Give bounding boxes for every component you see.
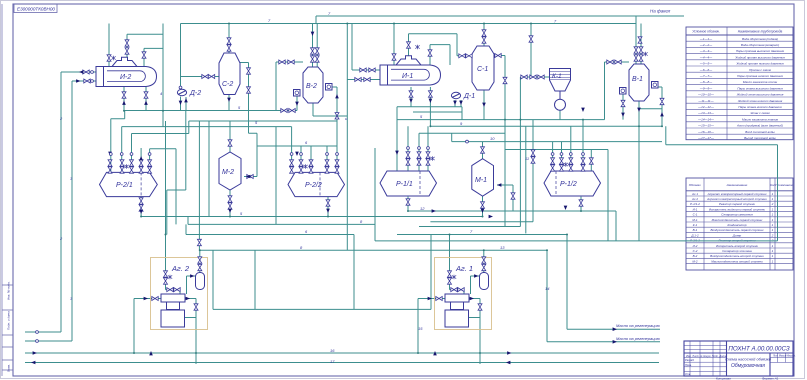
svg-text:И-1: И-1 bbox=[402, 73, 413, 80]
wire K-1 feed vertical bbox=[530, 24, 532, 78]
wire R-1/2 stem 1 bbox=[552, 142, 554, 171]
svg-text:Д.1-2: Д.1-2 bbox=[690, 233, 699, 237]
top-left stamp box bbox=[14, 4, 57, 13]
svg-text:15: 15 bbox=[418, 326, 423, 331]
svg-text:—17—17—: —17—17— bbox=[697, 136, 715, 140]
wire Ag2 feed 1 bbox=[165, 121, 167, 290]
wire bottom long 1 bbox=[25, 352, 659, 354]
svg-text:Д-1: Д-1 bbox=[463, 93, 475, 100]
vessel C-2 (separator) bbox=[219, 53, 240, 95]
wire x451.7 link bbox=[451, 133, 453, 141]
svg-text:—5—5—: —5—5— bbox=[699, 62, 713, 66]
wire band y234.5 bbox=[186, 234, 354, 236]
svg-text:Наименование трубопровода: Наименование трубопровода bbox=[738, 30, 783, 34]
svg-text:Наименование: Наименование bbox=[727, 183, 748, 187]
svg-text:Р-1/2: Р-1/2 bbox=[560, 181, 577, 188]
svg-text:Маслоотделитель второй ступени: Маслоотделитель второй ступени bbox=[711, 259, 763, 263]
wire Ag1 manifold bbox=[450, 290, 465, 294]
wire Ag1 feed 2 bbox=[483, 250, 485, 272]
svg-text:Вода оборотная (подача): Вода оборотная (подача) bbox=[742, 37, 778, 41]
vessel M-1 bbox=[472, 159, 494, 197]
wire v x166.8 bbox=[167, 190, 186, 235]
svg-text:Маслоотделитель первой ступени: Маслоотделитель первой ступени bbox=[712, 218, 763, 222]
svg-text:Р-2/2: Р-2/2 bbox=[305, 182, 322, 189]
wire flare header bbox=[316, 16, 684, 24]
wire x213 drop bbox=[212, 250, 214, 309]
wire bottom-left stub 1 bbox=[25, 331, 61, 333]
wire B-1 top stub 2 bbox=[640, 24, 642, 65]
svg-text:Изм. Лист № докум. Подп. Дат: Изм. Лист № докум. Подп. Дата bbox=[686, 354, 727, 358]
wire Ag2 right outlet bbox=[185, 299, 196, 365]
svg-text:Пары пропана высокого давления: Пары пропана высокого давления bbox=[736, 49, 784, 53]
wire R-1/2 jog bbox=[505, 150, 608, 241]
wire R-1/1 bottom bbox=[407, 197, 409, 211]
wire I-1 top stub A bbox=[393, 24, 395, 66]
svg-text:М-1: М-1 bbox=[692, 218, 697, 222]
vessel C-1 (separator) bbox=[472, 46, 494, 90]
svg-text:Воздухоотделитель второй ступе: Воздухоотделитель второй ступени bbox=[710, 254, 764, 258]
wire long vertical x520.4 bbox=[519, 77, 521, 227]
svg-text:—1—1—: —1—1— bbox=[699, 37, 713, 41]
svg-text:Испаритель второй ступени: Испаритель второй ступени bbox=[716, 244, 758, 248]
wire long left vertical 1 bbox=[60, 72, 62, 332]
svg-text:В-1: В-1 bbox=[693, 228, 698, 232]
wire B-2 bottom-left line bbox=[111, 111, 125, 119]
wire B-1 top line drop bbox=[635, 16, 637, 64]
wire B-1 left loop bbox=[605, 62, 630, 120]
wire I-2 bottom stub B bbox=[145, 87, 147, 111]
wire band y216.5 bbox=[141, 216, 483, 218]
wire B-1 bottom drop bbox=[638, 101, 640, 241]
svg-text:Д-2: Д-2 bbox=[189, 90, 201, 97]
wire I-2 left feed 2 bbox=[72, 80, 96, 82]
wire M-1 right inlet bbox=[497, 185, 513, 211]
wire R-2/1 stem 3 bbox=[131, 134, 133, 173]
condenser K-1 bbox=[550, 69, 571, 111]
svg-text:10: 10 bbox=[490, 136, 495, 141]
tiny line-number labels bbox=[59, 11, 557, 364]
wire R-2/1 stem 1 bbox=[110, 119, 112, 173]
wire v x525.8 bbox=[525, 126, 527, 233]
svg-text:—9—9—: —9—9— bbox=[699, 86, 713, 90]
wire header2 bbox=[413, 107, 462, 120]
wire Ag1 bottom-rect link bbox=[469, 317, 481, 319]
pipeline table (top right) bbox=[686, 27, 793, 140]
wire I-2 left feed 1 bbox=[61, 71, 96, 73]
wire Ag2 left inlet bbox=[134, 299, 161, 354]
wire I-1 left feed 2 bbox=[347, 79, 380, 81]
wire bottom-left stub 2 bbox=[25, 340, 72, 342]
wire band y224.4 bbox=[188, 223, 375, 225]
compressor unit Ag2 bbox=[151, 258, 208, 330]
svg-text:—2—2—: —2—2— bbox=[699, 43, 713, 47]
svg-text:М-2: М-2 bbox=[222, 169, 234, 176]
wire R-2/1 bottom bbox=[140, 197, 142, 217]
wire B-2 right fitting link bbox=[331, 86, 337, 88]
wire band y211 bbox=[408, 210, 616, 212]
svg-text:Формат А1: Формат А1 bbox=[762, 377, 779, 380]
wire C-2 bottom stub bbox=[228, 95, 230, 111]
svg-text:Пары этана низкого давления: Пары этана низкого давления bbox=[738, 105, 782, 109]
svg-text:Испаритель жидкости первой сту: Испаритель жидкости первой ступени bbox=[709, 207, 766, 211]
svg-text:Е300000ТК0ВН00: Е300000ТК0ВН00 bbox=[17, 7, 55, 12]
svg-text:Дозер: Дозер bbox=[732, 233, 742, 237]
svg-text:Вход тепловой воды: Вход тепловой воды bbox=[745, 130, 775, 134]
reactor R-2/2 bbox=[288, 172, 345, 196]
wire I-2 dome right stub bbox=[144, 48, 163, 66]
svg-text:Лит.: Лит. bbox=[772, 355, 779, 358]
svg-text:Выход тепловой воды: Выход тепловой воды bbox=[744, 136, 777, 140]
svg-text:И-2: И-2 bbox=[693, 244, 698, 248]
wire x431 rise bbox=[430, 235, 432, 310]
wire M-2 top stem bbox=[229, 121, 231, 152]
svg-text:Аг. 2: Аг. 2 bbox=[171, 264, 190, 273]
wire under-I1 header bbox=[397, 106, 462, 108]
wire I-2 bottom stub A bbox=[123, 87, 125, 111]
wire R-2/2 stem 2 bbox=[300, 146, 302, 172]
wire R-2/1 stem 5 bbox=[150, 149, 176, 171]
svg-text:—8—8—: —8—8— bbox=[699, 80, 713, 84]
wire band y119.6 bbox=[397, 119, 605, 121]
wire x255 drop bbox=[254, 250, 256, 309]
vessel B-1 bbox=[620, 64, 659, 101]
svg-text:Вода оборотная (возврат): Вода оборотная (возврат) bbox=[741, 43, 779, 47]
svg-text:16: 16 bbox=[330, 348, 335, 353]
vessel B-2 bbox=[294, 67, 333, 103]
wire I-1 top stub B bbox=[409, 34, 413, 56]
wire K-1 left line bbox=[520, 76, 549, 78]
wire x665.8 link bbox=[666, 126, 778, 241]
svg-text:Р-1/1-2: Р-1/1-2 bbox=[690, 202, 700, 206]
wire I-1 left feed 1 bbox=[352, 24, 380, 71]
svg-text:—4—4—: —4—4— bbox=[699, 55, 713, 59]
wire R-1/2 bottom bbox=[580, 197, 582, 211]
svg-text:—15—15—: —15—15— bbox=[697, 124, 715, 128]
svg-text:Жидкий этан высокого давления: Жидкий этан высокого давления bbox=[736, 93, 784, 97]
wire C-1 left inlet bbox=[457, 34, 472, 56]
svg-text:Условное обознач.: Условное обознач. bbox=[692, 30, 720, 34]
wire I-2 top stub A bbox=[108, 24, 110, 67]
wire I-1 dome right stub bbox=[430, 45, 450, 65]
svg-text:Аг.1: Аг.1 bbox=[691, 192, 698, 196]
wire band y133.3 left bbox=[132, 121, 210, 217]
wire band y126.2 bbox=[430, 125, 662, 127]
wire M-2 right inlet bbox=[244, 133, 257, 176]
svg-text:В-2: В-2 bbox=[693, 254, 698, 258]
svg-text:К-1: К-1 bbox=[693, 223, 698, 227]
wire Ag2 bottom-rect link bbox=[185, 317, 197, 319]
svg-text:11: 11 bbox=[525, 156, 529, 161]
wire Ag2 vessel link bbox=[187, 276, 196, 294]
svg-text:Агрегат компрессорный второй с: Агрегат компрессорный второй ступени bbox=[706, 197, 767, 201]
svg-text:Утв.: Утв. bbox=[685, 372, 691, 376]
svg-text:—7—7—: —7—7— bbox=[699, 74, 713, 78]
wire main top header bbox=[181, 23, 637, 25]
svg-text:С-1: С-1 bbox=[477, 66, 488, 73]
wire B-1 bottom bracket bbox=[639, 108, 662, 110]
svg-text:Масло на регенерацию: Масло на регенерацию bbox=[616, 323, 660, 328]
wire drop to D-2 bbox=[180, 24, 182, 90]
wire Ag2 feed 2 bbox=[199, 250, 201, 272]
svg-text:Пары пропана низкого давления: Пары пропана низкого давления bbox=[737, 74, 783, 78]
wire vertical right of I-2 bbox=[162, 24, 164, 127]
wire R-2/2 stem 4 bbox=[336, 146, 338, 172]
title block bbox=[684, 341, 793, 376]
svg-text:Агрегат компрессорный первой с: Агрегат компрессорный первой ступени bbox=[707, 192, 767, 196]
svg-text:—16—16—: —16—16— bbox=[697, 130, 715, 134]
vessel M-2 bbox=[219, 152, 241, 190]
wire band y250.2 bbox=[199, 249, 547, 251]
svg-text:Воздухоотделитель первой ступе: Воздухоотделитель первой ступени bbox=[711, 228, 764, 232]
svg-text:В-2: В-2 bbox=[306, 83, 317, 90]
wire M-2 bottom bbox=[229, 190, 231, 217]
wire jog y33.8 bbox=[412, 33, 457, 35]
reactor R-1/1 bbox=[380, 171, 437, 196]
wire D-2 drop 2 bbox=[185, 97, 187, 111]
wire v x533 bbox=[532, 120, 534, 222]
svg-text:Пары этана высокого давления: Пары этана высокого давления bbox=[737, 86, 783, 90]
wire B-2 right outlet vertical bbox=[336, 87, 338, 146]
compressor unit Ag1 bbox=[435, 258, 492, 330]
wire x616 link bbox=[615, 211, 617, 241]
wire band y221.8 bbox=[430, 221, 533, 223]
svg-text:Масшт.: Масшт. bbox=[787, 355, 796, 358]
wire M-1 top stem bbox=[482, 142, 484, 159]
svg-text:К-1: К-1 bbox=[552, 73, 562, 80]
svg-text:—14—14—: —14—14— bbox=[697, 117, 715, 121]
wire D-1 drop 1 bbox=[454, 100, 456, 107]
wire band y126.4 left bbox=[122, 126, 276, 128]
wire C-1 top stub bbox=[483, 24, 485, 47]
wire B-1 left fitting drop bbox=[622, 94, 624, 120]
wire B-2 top stub 1 bbox=[312, 24, 314, 68]
vessel I-1 (evaporator) bbox=[380, 56, 441, 85]
svg-text:И-2: И-2 bbox=[120, 74, 131, 81]
wire Ag1 vessel link bbox=[471, 276, 480, 294]
svg-text:Обознач.: Обознач. bbox=[689, 183, 702, 187]
wire C-1 bottom stub bbox=[483, 90, 485, 120]
svg-text:М-2: М-2 bbox=[692, 259, 697, 263]
wire x354 drop bbox=[353, 235, 355, 310]
svg-text:2: 2 bbox=[771, 202, 774, 206]
wire B-2 bottom outlet bbox=[313, 103, 347, 116]
svg-text:Пров.: Пров. bbox=[685, 363, 692, 367]
svg-text:—10—10—: —10—10— bbox=[697, 93, 715, 97]
wire maslo line B bbox=[567, 235, 660, 330]
svg-text:Этан с газом: Этан с газом bbox=[750, 111, 769, 115]
reactor R-1/2 bbox=[544, 171, 601, 196]
wire x375 drop bbox=[374, 148, 376, 241]
svg-text:Схема насосной обвязки: Схема насосной обвязки bbox=[725, 357, 772, 362]
wire I-1 bottom stub B bbox=[429, 87, 431, 126]
wire compressor link line bbox=[213, 308, 431, 310]
wire D-2 drop 1 bbox=[180, 97, 182, 111]
wire long left vertical 2 bbox=[71, 81, 73, 341]
wire I-2 top stub B bbox=[126, 34, 128, 57]
svg-text:Масло кашалота этапов: Масло кашалота этапов bbox=[742, 117, 778, 121]
wire R-1/2 stem 3 bbox=[570, 126, 572, 171]
wire Ag2 manifold bbox=[166, 290, 181, 294]
svg-text:В-1: В-1 bbox=[632, 76, 643, 83]
wire M-1 bottom bbox=[482, 196, 484, 217]
wire D-1 drop 2 bbox=[460, 100, 462, 107]
svg-text:13: 13 bbox=[500, 245, 505, 250]
svg-text:Копировал: Копировал bbox=[716, 377, 731, 380]
wire R-2/2 stem 2b bbox=[310, 146, 312, 172]
wire band y141.6 bbox=[452, 141, 662, 143]
wire R-1/2 stem 2 bbox=[561, 142, 563, 171]
wire long vertical x505 bbox=[504, 56, 506, 227]
wire R-1/1 stem 2 bbox=[407, 126, 409, 171]
svg-text:С-1: С-1 bbox=[693, 213, 698, 217]
svg-text:ПОХНТ А.00.00.00СЗ: ПОХНТ А.00.00.00СЗ bbox=[728, 346, 790, 353]
wire B-1 right fitting link bbox=[657, 87, 662, 126]
svg-text:Сепаратор этилена: Сепаратор этилена bbox=[722, 249, 752, 253]
wire C-2 top stub bbox=[228, 24, 230, 54]
svg-text:Взам.: Взам. bbox=[7, 364, 11, 372]
svg-text:Примечание: Примечание bbox=[775, 183, 793, 187]
wire R-1/2 stem 4 bbox=[582, 120, 584, 171]
svg-text:Жидкий этан низкого давления: Жидкий этан низкого давления bbox=[737, 99, 783, 103]
vessel I-2 (evaporator) bbox=[96, 57, 157, 86]
wire long vertical right of B-2 bbox=[346, 24, 348, 251]
wire R-2/1 stem 2 bbox=[121, 127, 123, 173]
wire x188 link bbox=[187, 217, 189, 225]
wire R-1/1 stem 1 bbox=[396, 107, 398, 171]
wire R-2/2 stem 3 bbox=[326, 146, 328, 172]
svg-text:Конденсатор: Конденсатор bbox=[727, 223, 746, 227]
wire band y133.3 right bbox=[419, 132, 505, 134]
wire B-2 left fitting drop bbox=[296, 96, 298, 111]
wire B-2 left loop vertical bbox=[275, 62, 277, 224]
svg-text:—3—3—: —3—3— bbox=[699, 49, 713, 53]
svg-text:—12—12—: —12—12— bbox=[697, 105, 715, 109]
svg-text:Масло на регенерацию: Масло на регенерацию bbox=[616, 336, 660, 341]
svg-text:Аг.2: Аг.2 bbox=[691, 197, 698, 201]
svg-text:Р-2/1: Р-2/1 bbox=[116, 182, 133, 189]
wire C-2 right jog bbox=[240, 63, 249, 134]
svg-text:Реактор первой ступени: Реактор первой ступени bbox=[719, 202, 755, 206]
svg-text:Жидкий пропан высокого давлени: Жидкий пропан высокого давления bbox=[734, 55, 785, 59]
wire band y226.5 bbox=[419, 226, 520, 228]
svg-text:—6—6—: —6—6— bbox=[699, 68, 713, 72]
wire Ag1 left inlet bbox=[418, 299, 445, 354]
svg-text:М-1: М-1 bbox=[475, 177, 487, 184]
wire x186 link bbox=[185, 224, 187, 234]
reactor R-2/1 bbox=[100, 172, 158, 196]
wire I-1 bottom stub A bbox=[410, 87, 412, 107]
wire jog bbox=[127, 33, 163, 35]
wire v x199.4 bbox=[198, 121, 200, 250]
svg-text:12: 12 bbox=[420, 206, 425, 211]
wire R-1/1 stem 3 bbox=[418, 133, 420, 171]
svg-text:—13—13—: —13—13— bbox=[697, 111, 715, 115]
wire C-2 left inlet bbox=[181, 76, 220, 78]
wire R-2/2 bottom bbox=[327, 197, 329, 217]
wire B-2 left top inlet bbox=[276, 61, 303, 63]
wire v x176 bbox=[175, 149, 177, 225]
wire band y146 left bbox=[257, 145, 337, 147]
wire C-1 right jog bbox=[494, 55, 505, 57]
svg-text:14: 14 bbox=[545, 286, 550, 291]
left margin strip bbox=[2, 4, 13, 376]
svg-text:2: 2 bbox=[771, 233, 774, 237]
svg-text:С-2: С-2 bbox=[693, 249, 698, 253]
svg-text:Обмуровочная: Обмуровочная bbox=[731, 363, 765, 369]
svg-text:Аг. 1: Аг. 1 bbox=[455, 264, 473, 273]
svg-text:Азот (продувка) (всех давлений: Азот (продувка) (всех давлений) bbox=[736, 124, 783, 128]
wire Ag1 feed 1 bbox=[449, 235, 451, 290]
svg-text:—11—11—: —11—11— bbox=[697, 99, 714, 103]
svg-text:Инв. № подл.: Инв. № подл. bbox=[7, 281, 11, 300]
svg-text:Сепаратор смешения: Сепаратор смешения bbox=[721, 213, 753, 217]
svg-text:17: 17 bbox=[330, 359, 335, 364]
svg-text:Р-1/1: Р-1/1 bbox=[396, 181, 413, 188]
wire band y121.7 left bbox=[189, 120, 337, 122]
wire band y240.9 bbox=[375, 240, 778, 242]
wire B-2 top stub 2 bbox=[316, 24, 318, 68]
svg-text:На факел: На факел bbox=[650, 9, 671, 14]
wire under-I2 header bbox=[125, 110, 297, 112]
svg-text:Масло кашалота отгон: Масло кашалота отгон bbox=[743, 80, 778, 84]
wire R-1/1 stem 4 bbox=[427, 126, 429, 171]
svg-text:С-2: С-2 bbox=[222, 81, 233, 88]
wire bottom long 2 bbox=[25, 362, 659, 364]
equipment table (right) bbox=[686, 178, 793, 270]
svg-text:Пропан с газом: Пропан с газом bbox=[749, 68, 771, 72]
wire R-2/2 stem 1 bbox=[276, 127, 292, 173]
svg-text:И-1: И-1 bbox=[693, 207, 698, 211]
dozer D-2 bbox=[177, 89, 186, 95]
dozer D-1 bbox=[451, 92, 460, 98]
wire v x185.8 bbox=[185, 111, 187, 191]
svg-text:Жидкий пропан низкого давления: Жидкий пропан низкого давления bbox=[735, 62, 784, 66]
wire K-1 bottom stem bbox=[559, 110, 561, 119]
wire band y234.5 right bbox=[397, 234, 567, 236]
wire Ag1 right outlet bbox=[469, 299, 480, 365]
svg-text:Разраб.: Разраб. bbox=[685, 358, 695, 362]
wire maslo line A bbox=[547, 250, 660, 342]
wire R-2/1 stem 4 bbox=[140, 148, 142, 172]
svg-text:Подп. и дата: Подп. и дата bbox=[7, 311, 11, 330]
